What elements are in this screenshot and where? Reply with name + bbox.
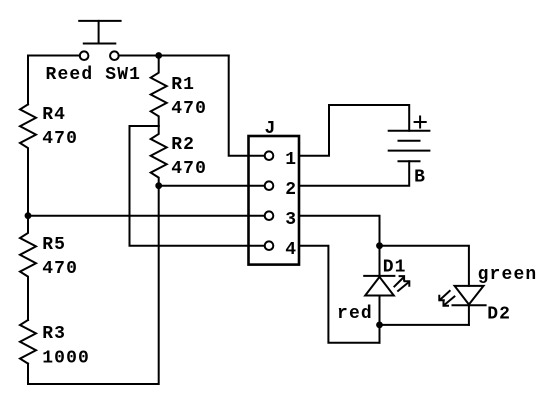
svg-text:R5: R5 — [42, 235, 66, 255]
node junction left — [26, 213, 31, 218]
battery B plates — [389, 131, 430, 161]
wire jog R1/R2 node — [130, 126, 265, 246]
svg-text:green: green — [478, 265, 538, 285]
plus sign — [415, 117, 426, 128]
pin 1 circle — [265, 151, 274, 160]
svg-text:Reed SW1: Reed SW1 — [46, 65, 142, 85]
pin 3 circle — [265, 211, 274, 220]
wire left column top — [28, 56, 80, 105]
wire to pin1 — [229, 56, 265, 156]
resistor R2 — [151, 126, 167, 186]
svg-text:D1: D1 — [383, 257, 407, 277]
svg-text:R2: R2 — [171, 135, 195, 155]
wire to pin3 — [28, 215, 265, 217]
svg-text:red: red — [337, 304, 373, 324]
connector J box — [249, 136, 300, 265]
svg-text:470: 470 — [42, 259, 78, 279]
node junction D1 top — [377, 243, 382, 248]
svg-text:R4: R4 — [42, 105, 66, 125]
svg-text:D2: D2 — [487, 304, 511, 324]
svg-text:3: 3 — [285, 210, 297, 230]
svg-text:470: 470 — [171, 159, 207, 179]
switch contact Reed — [80, 51, 89, 60]
switch contact SW1 — [110, 51, 119, 60]
wire pin3 to D1 node — [299, 216, 380, 246]
svg-text:470: 470 — [171, 99, 207, 119]
svg-text:R3: R3 — [42, 324, 66, 344]
resistor R3 — [20, 320, 36, 364]
node junction top — [156, 53, 161, 58]
pushbutton actuator SW1 — [79, 21, 120, 44]
wire D2 bottom to D1 node — [380, 324, 469, 326]
svg-text:R1: R1 — [171, 75, 195, 95]
svg-text:B: B — [414, 167, 426, 187]
wire to pin2 — [159, 185, 265, 187]
svg-text:1: 1 — [285, 150, 297, 170]
wire D1 node to D2 top — [380, 246, 469, 286]
D2 arrows — [439, 291, 454, 306]
svg-text:470: 470 — [42, 129, 78, 149]
LED D1 — [364, 246, 394, 343]
wire pin4 to D1 bottom — [299, 246, 380, 343]
resistor R5 — [20, 216, 36, 320]
svg-text:2: 2 — [285, 180, 297, 200]
pin 4 circle — [265, 241, 274, 250]
wire R2 node down to bottom — [28, 186, 159, 384]
node junction D1 bottom — [377, 323, 382, 328]
wire battery - to pin2 — [299, 161, 409, 186]
pin 2 circle — [265, 181, 274, 190]
resistor R1 — [151, 56, 167, 127]
node junction R2 bottom — [156, 183, 161, 188]
D1 arrows — [394, 276, 409, 291]
resistor R4 — [20, 104, 36, 215]
svg-text:4: 4 — [285, 240, 297, 260]
svg-text:J: J — [265, 119, 277, 139]
LED D2 — [453, 286, 486, 325]
wire switch to node — [119, 55, 229, 57]
wire pin1 to battery + — [299, 105, 409, 156]
svg-text:1000: 1000 — [42, 349, 90, 369]
